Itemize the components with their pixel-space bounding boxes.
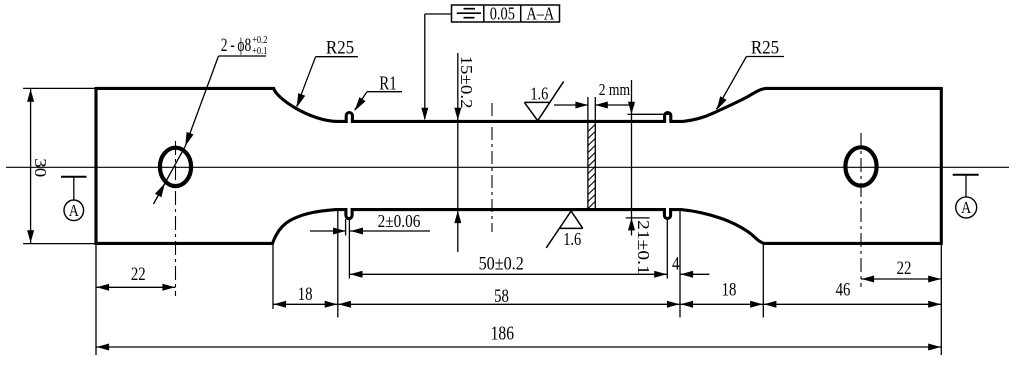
leader 2-phi8 underline bbox=[219, 55, 267, 57]
svg-text:1.6: 1.6 bbox=[530, 83, 548, 104]
leader R1 bbox=[355, 92, 402, 111]
datum A left bbox=[61, 177, 87, 221]
extension line bottom notch ridge bbox=[626, 217, 650, 219]
svg-text:+0.2: +0.2 bbox=[252, 35, 267, 46]
label 1.6 top bbox=[530, 83, 548, 104]
svg-text:A: A bbox=[69, 202, 79, 220]
dimension line 186 bbox=[96, 344, 941, 351]
svg-text:186: 186 bbox=[491, 322, 515, 344]
extension line notch center right bbox=[666, 219, 668, 279]
label 50+-0.2 bbox=[479, 252, 524, 274]
dimension 2mm arrows bbox=[554, 102, 634, 109]
dimension line 22 left bbox=[96, 284, 176, 291]
label R1 bbox=[379, 71, 396, 94]
dimension line 30 bbox=[27, 88, 34, 243]
hatched 2mm band bbox=[588, 97, 595, 210]
hole right (phi 8) bbox=[845, 147, 876, 185]
FCF leader with arrow bbox=[421, 14, 451, 120]
svg-text:18: 18 bbox=[298, 283, 313, 304]
extension line left edge bbox=[95, 244, 97, 355]
extension lines for 30 bbox=[23, 88, 96, 243]
label 22 left bbox=[131, 263, 146, 284]
label 4 bbox=[672, 253, 680, 274]
surface finish symbol top 1.6 bbox=[524, 81, 563, 120]
svg-text:46: 46 bbox=[836, 279, 851, 300]
extension line x763.3 bbox=[762, 244, 764, 318]
extension line notch left wall bbox=[345, 219, 347, 236]
svg-text:A–A: A–A bbox=[526, 3, 554, 24]
svg-text:A: A bbox=[961, 199, 971, 217]
svg-text:1.6: 1.6 bbox=[563, 229, 581, 250]
label 18 right bbox=[722, 279, 737, 300]
specimen right end edge bbox=[940, 87, 943, 245]
label R25 right bbox=[751, 37, 779, 58]
svg-text:58: 58 bbox=[494, 285, 509, 306]
dimension line 58 bbox=[338, 301, 680, 308]
label 2 mm bbox=[599, 81, 630, 100]
dimension line 15+-0.2 vertical bbox=[454, 53, 461, 252]
horizontal centerline bbox=[6, 166, 1009, 168]
svg-text:22: 22 bbox=[897, 257, 912, 278]
svg-text:2 mm: 2 mm bbox=[599, 81, 630, 100]
label 46 bbox=[836, 279, 851, 300]
svg-text:R25: R25 bbox=[326, 37, 354, 58]
label 2+-0.06 bbox=[378, 211, 421, 231]
svg-text:4: 4 bbox=[672, 253, 680, 274]
surface finish symbol bottom 1.6 bbox=[546, 211, 583, 248]
svg-text:18: 18 bbox=[722, 279, 737, 300]
feature control frame: symmetry | 0.05 | A-A bbox=[452, 5, 560, 22]
label 186 bbox=[491, 322, 515, 344]
label 1.6 bottom bbox=[563, 229, 581, 250]
svg-text:R1: R1 bbox=[379, 71, 396, 94]
gauge centerline mark bbox=[491, 103, 493, 232]
leader 2-phi8 to hole with arrows bbox=[154, 56, 219, 204]
extension line x680 bbox=[679, 211, 681, 318]
label 2-phi8 +0.2/+0.1 bbox=[221, 34, 268, 58]
label 18 left bbox=[298, 283, 313, 304]
svg-text:22: 22 bbox=[131, 263, 146, 284]
svg-text:R25: R25 bbox=[751, 37, 779, 58]
FCF tolerance value 0.05 bbox=[490, 3, 515, 24]
label 15+-0.2 bbox=[457, 55, 476, 108]
svg-text:21±0.1: 21±0.1 bbox=[634, 220, 653, 275]
hole left (phi 8) bbox=[160, 148, 191, 186]
dimension line 22 right bbox=[861, 276, 941, 283]
label 22 right bbox=[897, 257, 912, 278]
datum A right bbox=[953, 175, 979, 218]
leader R25 right bbox=[717, 57, 785, 111]
specimen left end edge bbox=[94, 87, 97, 245]
extension line top notch ridge bbox=[628, 113, 670, 115]
label 21+-0.1 bbox=[634, 220, 653, 275]
label 58 bbox=[494, 285, 509, 306]
dimension 2+-0.06 bbox=[310, 228, 430, 235]
label R25 left bbox=[326, 37, 354, 58]
dimension 4 right arrow bbox=[680, 271, 709, 278]
dimension 21+-0.1 vertical line bbox=[628, 80, 635, 236]
hole right vertical centerline bbox=[860, 133, 862, 287]
svg-text:2 - ϕ8: 2 - ϕ8 bbox=[221, 34, 251, 56]
svg-text:2±0.06: 2±0.06 bbox=[378, 211, 421, 231]
dimension line 18 left bbox=[273, 301, 338, 308]
hole left vertical centerline bbox=[175, 141, 177, 296]
leader R25 left bbox=[297, 57, 358, 108]
extension line x337.8 bbox=[337, 211, 339, 318]
FCF datum reference A-A bbox=[526, 3, 554, 24]
svg-text:30: 30 bbox=[31, 158, 50, 177]
dimension line 50+-0.2 bbox=[349, 271, 667, 278]
label 30 bbox=[31, 158, 50, 177]
specimen outline top edge with R25 fillets and R1 notches bbox=[96, 88, 941, 121]
extension line notch center left bbox=[348, 219, 350, 279]
extension line right edge bbox=[940, 244, 942, 355]
specimen outline bottom edge with R25 fillets and R1 notches bbox=[96, 210, 941, 244]
svg-text:0.05: 0.05 bbox=[490, 3, 515, 24]
svg-text:50±0.2: 50±0.2 bbox=[479, 252, 524, 274]
dimension line 46 bbox=[763, 301, 941, 308]
svg-text:15±0.2: 15±0.2 bbox=[457, 55, 476, 108]
extension line left fillet start bbox=[272, 244, 274, 309]
dimension line 18 right bbox=[680, 301, 763, 308]
